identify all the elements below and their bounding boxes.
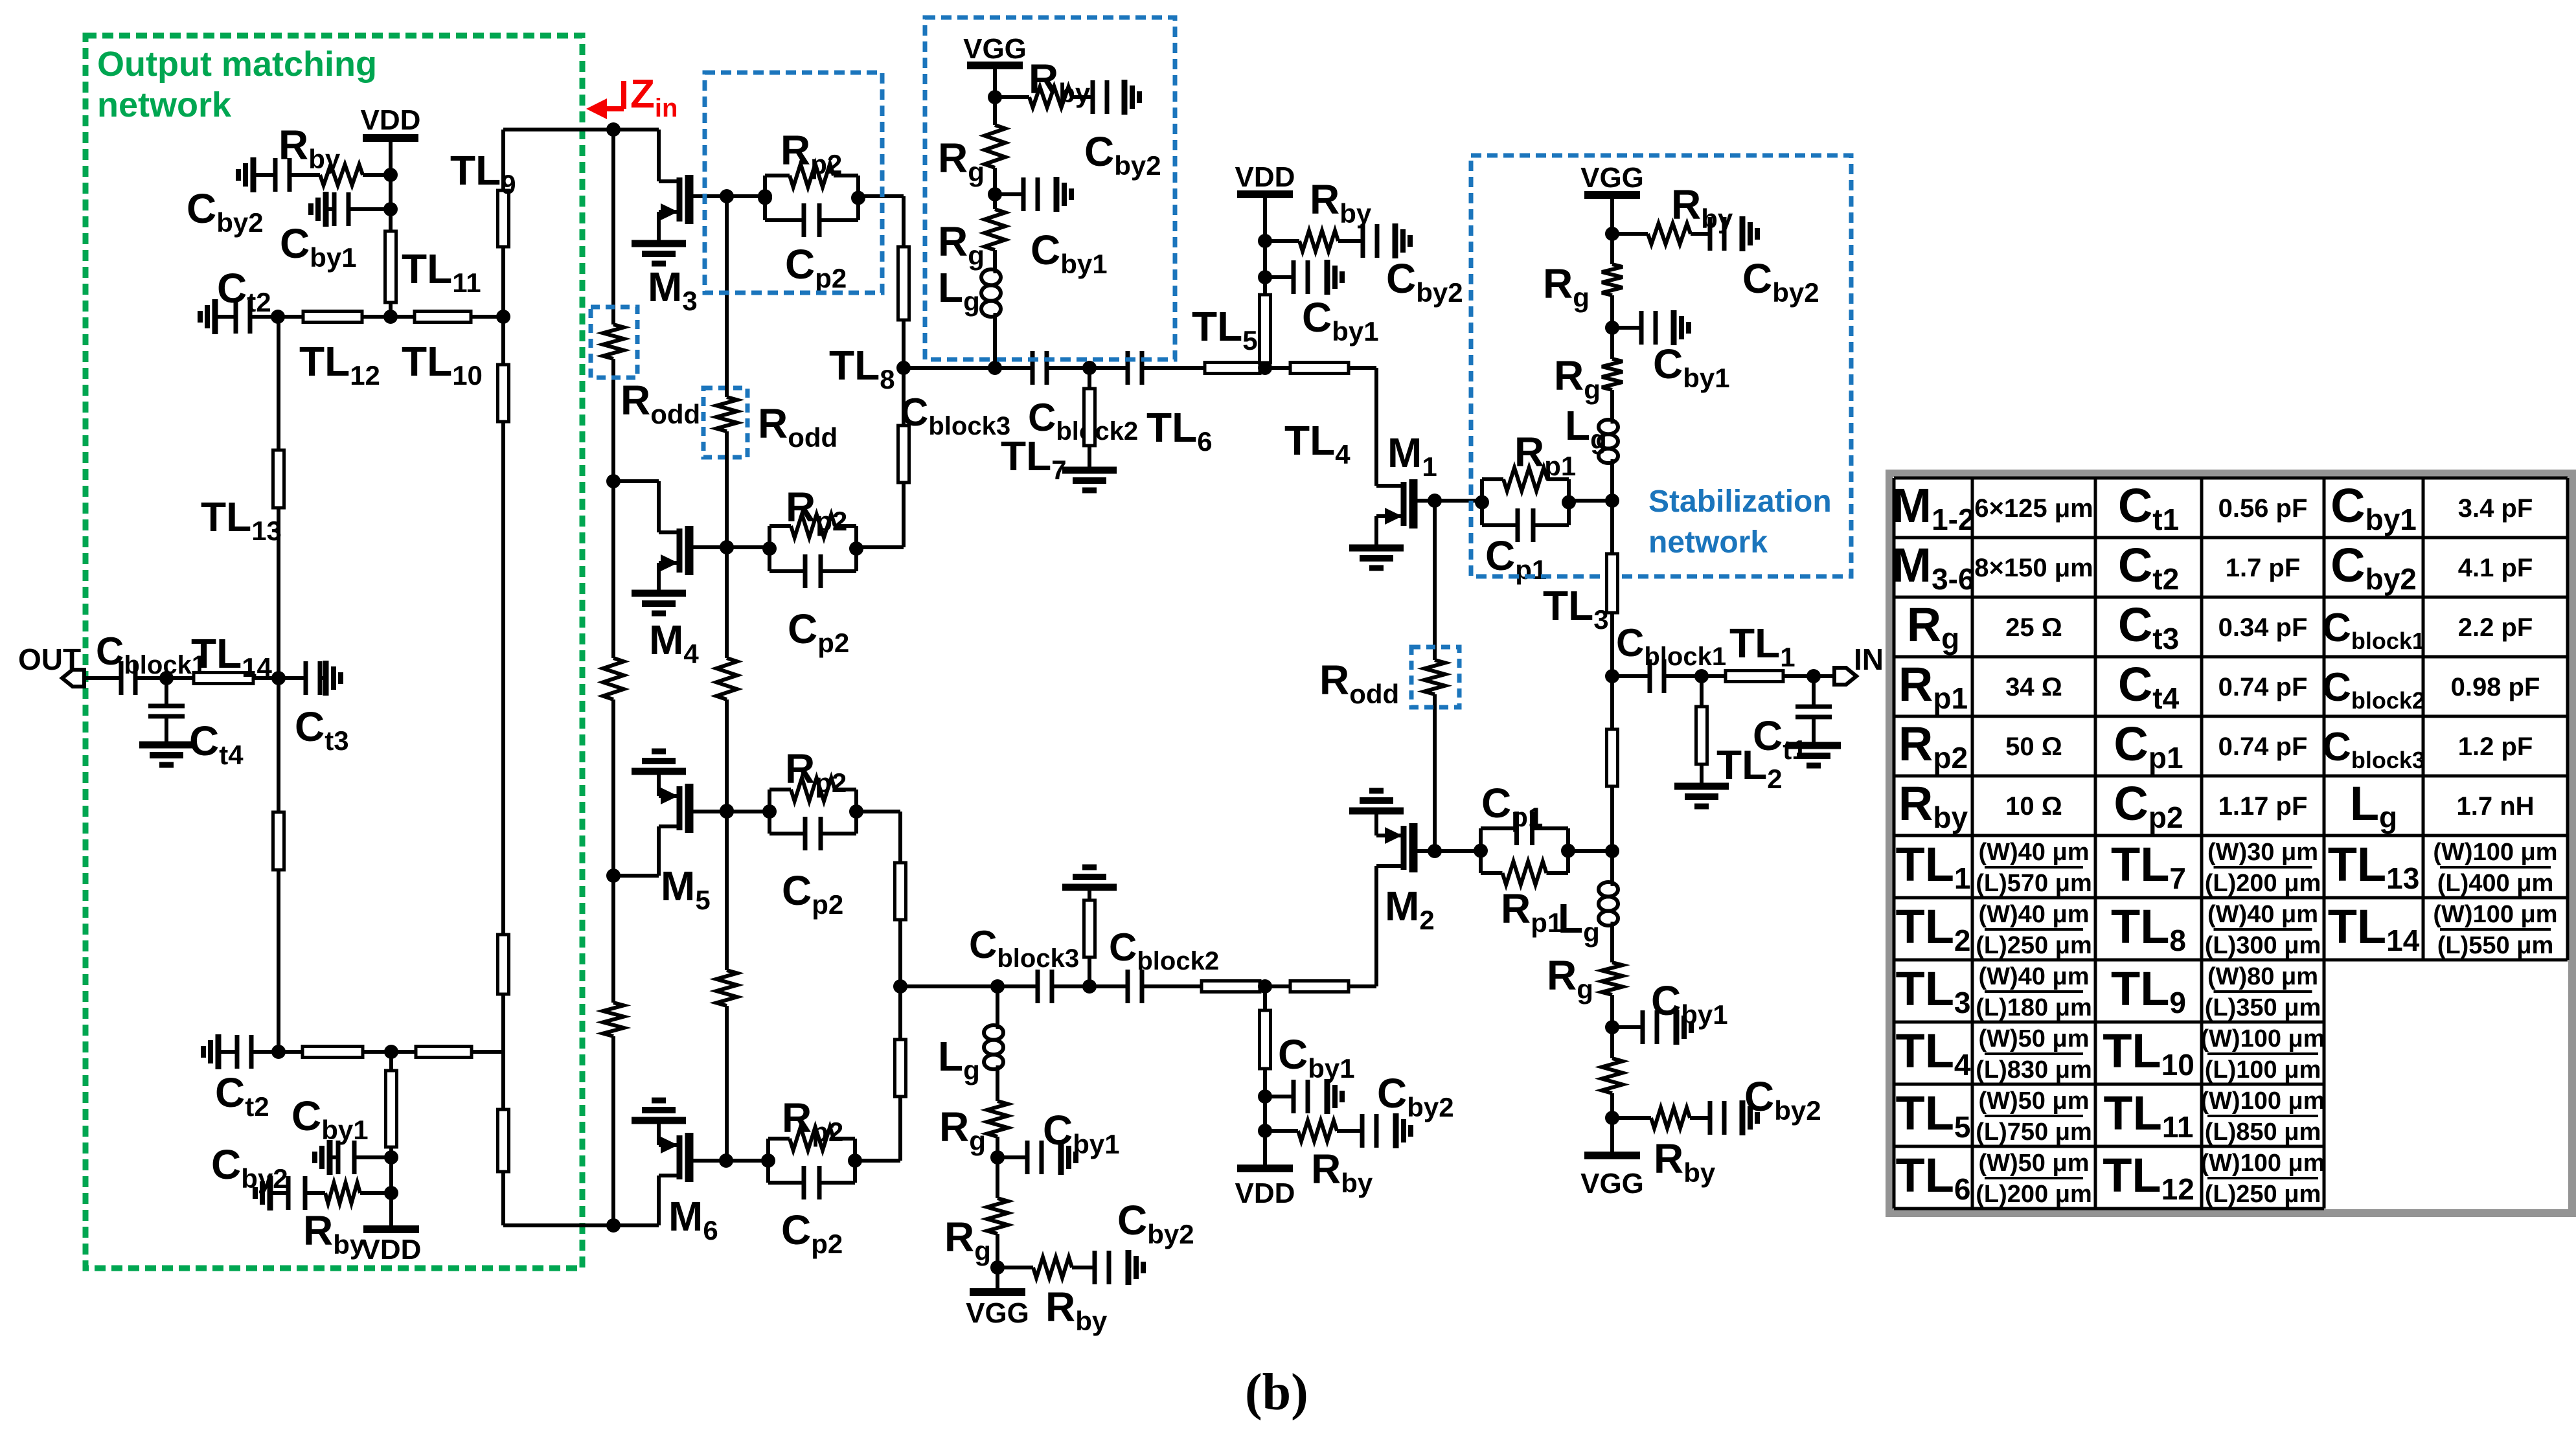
svg-text:VGG: VGG — [1580, 162, 1644, 194]
svg-text:50 Ω: 50 Ω — [2005, 733, 2062, 761]
svg-text:(L)570 μm: (L)570 μm — [1976, 870, 2092, 897]
svg-text:(W)40 μm: (W)40 μm — [1978, 839, 2089, 866]
svg-text:IN: IN — [1854, 642, 1884, 676]
svg-text:(W)40 μm: (W)40 μm — [1978, 901, 2089, 928]
svg-text:(L)250 μm: (L)250 μm — [1976, 932, 2092, 959]
svg-text:VDD: VDD — [361, 1234, 422, 1266]
svg-text:10 Ω: 10 Ω — [2005, 792, 2062, 821]
svg-text:1.17 pF: 1.17 pF — [2218, 792, 2308, 821]
svg-text:(L)200 μm: (L)200 μm — [2205, 870, 2321, 897]
svg-text:network: network — [97, 85, 232, 124]
svg-text:VDD: VDD — [1235, 161, 1295, 193]
svg-text:0.56 pF: 0.56 pF — [2218, 494, 2308, 523]
svg-text:(W)30 μm: (W)30 μm — [2207, 839, 2318, 866]
svg-text:4.1 pF: 4.1 pF — [2458, 554, 2533, 582]
svg-text:(W)100 μm: (W)100 μm — [2433, 839, 2557, 866]
svg-text:(W)50 μm: (W)50 μm — [1978, 1087, 2089, 1115]
svg-text:1.7 pF: 1.7 pF — [2226, 554, 2301, 582]
svg-text:0.34 pF: 0.34 pF — [2218, 613, 2308, 642]
svg-text:1.2 pF: 1.2 pF — [2458, 733, 2533, 761]
svg-text:(L)850 μm: (L)850 μm — [2205, 1119, 2321, 1146]
svg-text:2.2 pF: 2.2 pF — [2458, 613, 2533, 642]
svg-text:6×125 μm: 6×125 μm — [1974, 494, 2093, 523]
svg-text:34 Ω: 34 Ω — [2005, 673, 2062, 701]
svg-text:(W)40 μm: (W)40 μm — [2207, 901, 2318, 928]
svg-text:0.74 pF: 0.74 pF — [2218, 673, 2308, 701]
svg-text:(L)550 μm: (L)550 μm — [2437, 932, 2554, 959]
svg-text:VGG: VGG — [966, 1297, 1029, 1329]
svg-text:VGG: VGG — [963, 33, 1027, 65]
svg-text:25 Ω: 25 Ω — [2005, 613, 2062, 642]
svg-text:(b): (b) — [1245, 1364, 1308, 1421]
svg-text:VGG: VGG — [1580, 1168, 1644, 1199]
svg-text:(W)40 μm: (W)40 μm — [1978, 963, 2089, 990]
svg-text:(L)400 μm: (L)400 μm — [2437, 870, 2554, 897]
svg-text:(W)100 μm: (W)100 μm — [2200, 1025, 2325, 1052]
svg-text:(L)180 μm: (L)180 μm — [1976, 994, 2092, 1021]
svg-text:0.74 pF: 0.74 pF — [2218, 733, 2308, 761]
svg-text:Stabilization: Stabilization — [1648, 484, 1832, 519]
svg-text:(L)750 μm: (L)750 μm — [1976, 1119, 2092, 1146]
svg-text:(L)250 μm: (L)250 μm — [2205, 1181, 2321, 1208]
svg-text:(L)300 μm: (L)300 μm — [2205, 932, 2321, 959]
svg-text:Output matching: Output matching — [97, 45, 377, 84]
svg-text:(L)830 μm: (L)830 μm — [1976, 1056, 2092, 1084]
svg-text:(W)80 μm: (W)80 μm — [2207, 963, 2318, 990]
svg-text:(W)100 μm: (W)100 μm — [2200, 1150, 2325, 1177]
svg-text:network: network — [1648, 525, 1768, 560]
svg-text:(W)100 μm: (W)100 μm — [2200, 1087, 2325, 1115]
svg-text:8×150 μm: 8×150 μm — [1974, 554, 2093, 582]
svg-text:VDD: VDD — [1235, 1177, 1295, 1209]
svg-text:(L)100 μm: (L)100 μm — [2205, 1056, 2321, 1084]
svg-text:VDD: VDD — [361, 104, 421, 136]
svg-text:(W)50 μm: (W)50 μm — [1978, 1150, 2089, 1177]
svg-text:3.4 pF: 3.4 pF — [2458, 494, 2533, 523]
svg-text:(L)350 μm: (L)350 μm — [2205, 994, 2321, 1021]
svg-text:(W)100 μm: (W)100 μm — [2433, 901, 2557, 928]
svg-text:(W)50 μm: (W)50 μm — [1978, 1025, 2089, 1052]
svg-text:0.98 pF: 0.98 pF — [2451, 673, 2540, 701]
svg-text:1.7 nH: 1.7 nH — [2456, 792, 2534, 821]
svg-text:(L)200 μm: (L)200 μm — [1976, 1181, 2092, 1208]
